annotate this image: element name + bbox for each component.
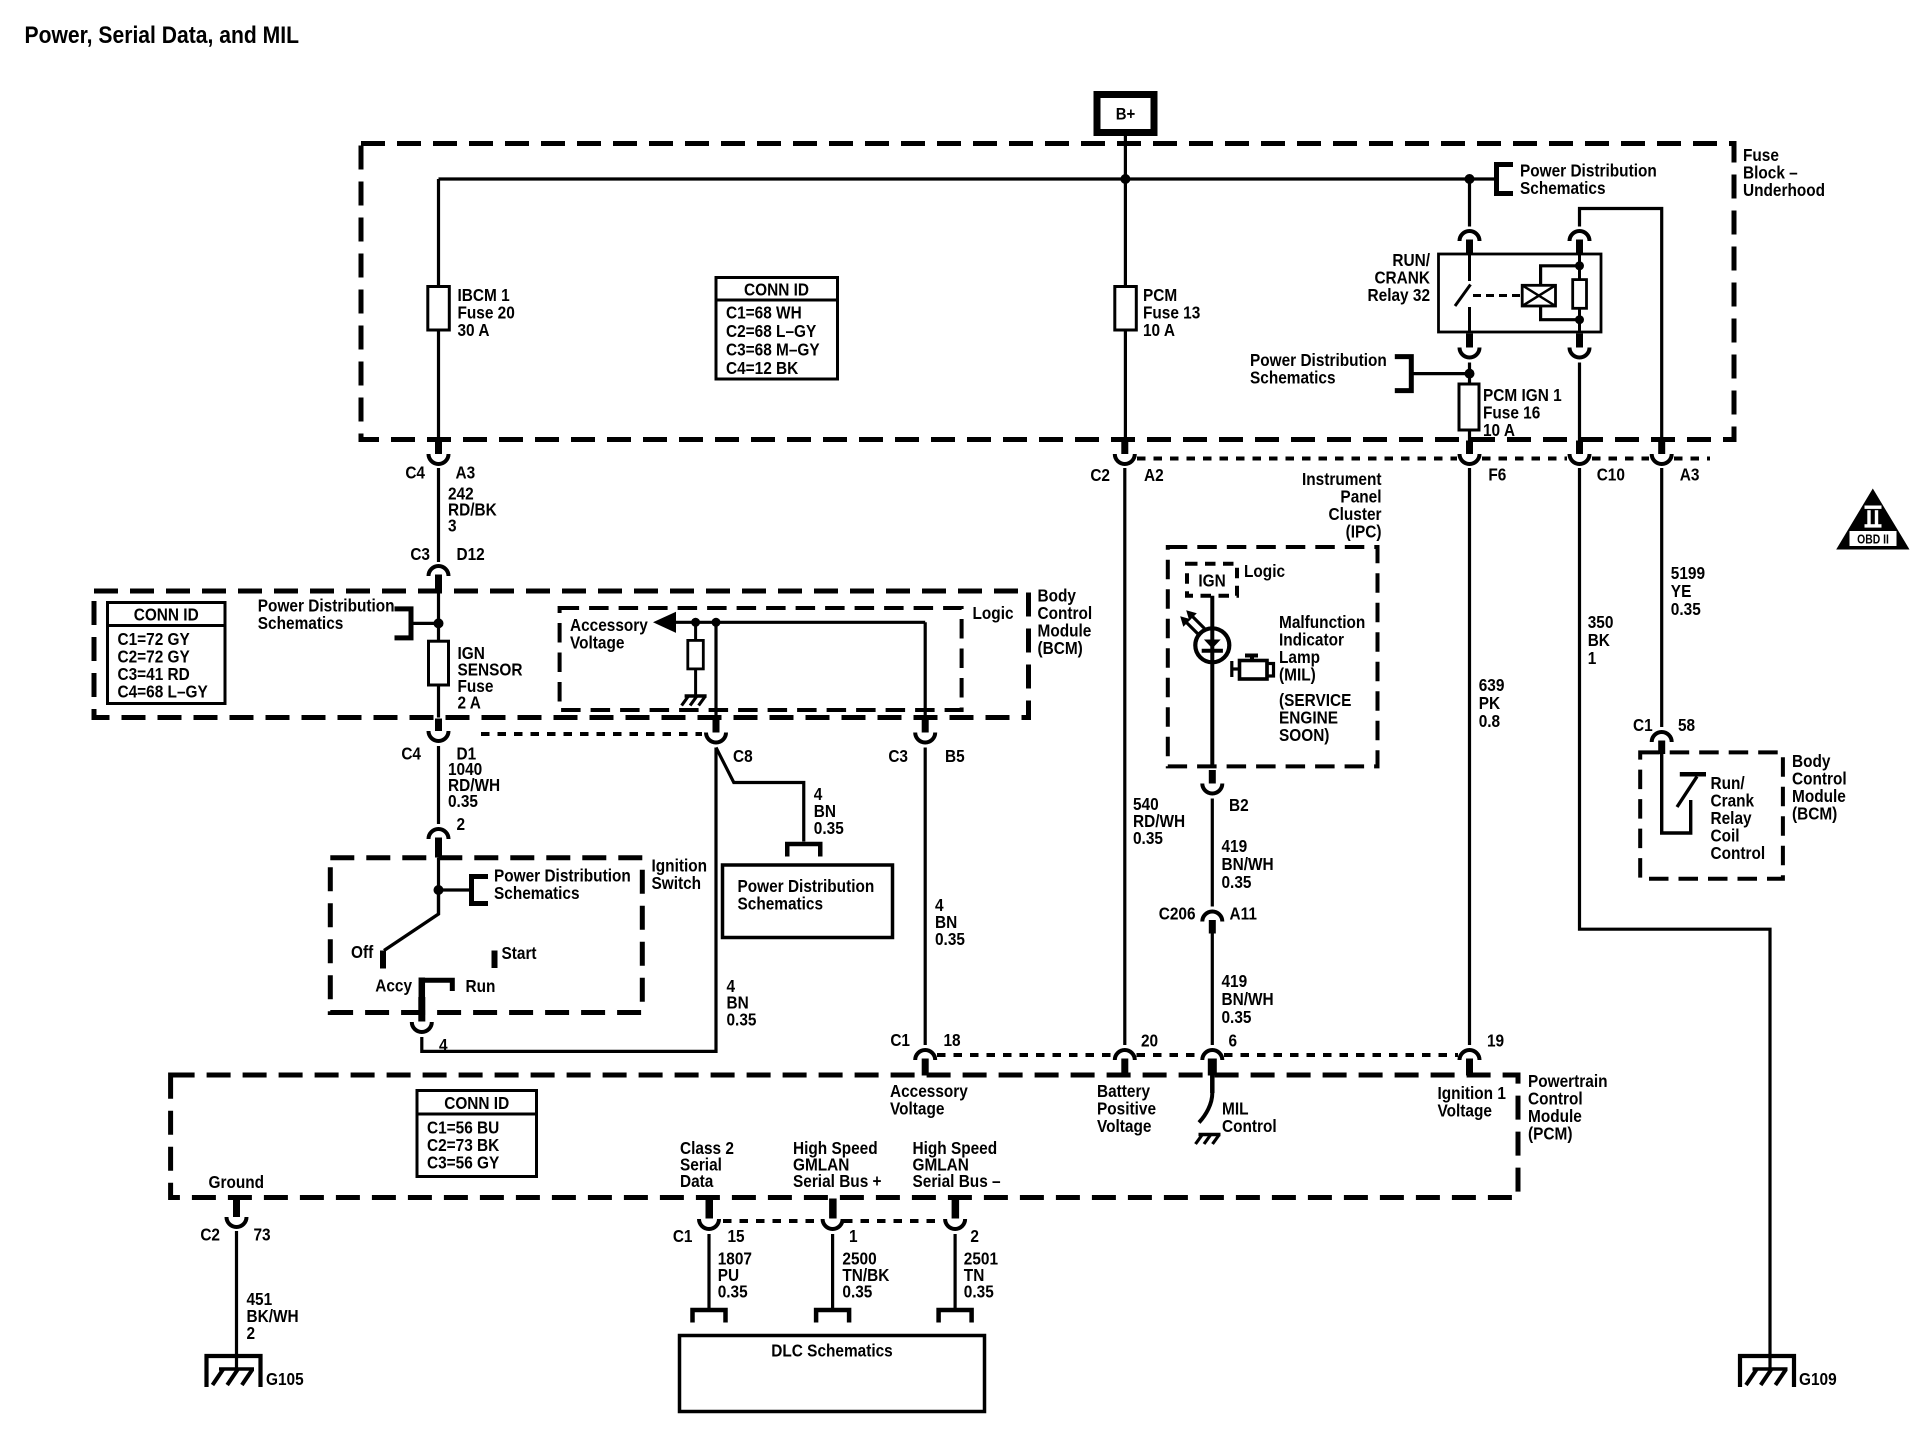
svg-text:Block –: Block – (1743, 164, 1798, 183)
wire C2/A2 down to pin 20 (1123, 468, 1126, 1045)
svg-text:10 A: 10 A (1143, 321, 1175, 340)
svg-text:2: 2 (247, 1324, 256, 1343)
svg-text:C2: C2 (1090, 466, 1110, 485)
svg-text:Ignition 1: Ignition 1 (1438, 1084, 1506, 1103)
svg-text:C1: C1 (890, 1031, 910, 1050)
wire D12 to IGN SENSOR fuse (437, 591, 440, 642)
svg-text:Malfunction: Malfunction (1279, 613, 1365, 632)
svg-text:Control: Control (1528, 1090, 1583, 1109)
wire into switch (437, 858, 440, 890)
svg-text:C2=73 BK: C2=73 BK (427, 1136, 499, 1155)
svg-text:PK: PK (1479, 694, 1500, 713)
relay RUN/CRANK Relay 32 (1439, 254, 1602, 332)
svg-text:Fuse: Fuse (1743, 146, 1779, 165)
svg-text:A3: A3 (456, 464, 476, 483)
svg-text:BK: BK (1588, 631, 1610, 650)
svg-text:C3=41 RD: C3=41 RD (118, 665, 190, 684)
svg-text:B2: B2 (1229, 796, 1249, 815)
svg-text:Voltage: Voltage (890, 1100, 944, 1119)
svg-text:C2: C2 (200, 1226, 220, 1245)
svg-text:58: 58 (1678, 716, 1695, 735)
svg-text:Control: Control (1792, 770, 1847, 789)
svg-text:Schematics: Schematics (1250, 369, 1336, 388)
svg-text:Ground: Ground (209, 1173, 265, 1192)
svg-text:C206: C206 (1159, 905, 1196, 924)
wire PCM fuse to C2/A2 (1124, 330, 1127, 442)
ground (BCM internal) (682, 696, 707, 706)
svg-text:C3: C3 (888, 747, 908, 766)
wire 350 BK 1 (C10 to G109) (1580, 468, 1771, 1369)
svg-text:73: 73 (254, 1226, 271, 1245)
box Power Distribution Schematics (723, 865, 893, 938)
svg-text:15: 15 (728, 1227, 745, 1246)
svg-text:C10: C10 (1597, 466, 1625, 485)
svg-text:Power, Serial Data, and MIL: Power, Serial Data, and MIL (25, 22, 300, 49)
wire coil bottom link (1541, 306, 1580, 320)
pcm connector row dotted line (937, 1053, 1113, 1057)
resistor BCM pull (694, 622, 697, 640)
svg-text:0.35: 0.35 (935, 930, 965, 949)
connector B2 (IPC output) (1202, 770, 1222, 794)
svg-text:C3=56 GY: C3=56 GY (427, 1154, 499, 1173)
connector C1/15 (class 2 serial) (706, 1199, 714, 1219)
svg-text:PCM IGN 1: PCM IGN 1 (1483, 386, 1562, 405)
wire relay coil feed elbow (1580, 209, 1662, 443)
harness stub to DLC (2) (939, 1310, 972, 1323)
connector C2/A2 (1115, 441, 1135, 465)
harness stub to DLC (15) (693, 1310, 726, 1323)
connector relay switch-in terminal (1460, 231, 1480, 254)
svg-text:0.35: 0.35 (842, 1282, 872, 1301)
svg-text:Power Distribution: Power Distribution (494, 867, 631, 886)
svg-text:10 A: 10 A (1483, 421, 1515, 440)
resistor relay suppression (1578, 266, 1581, 280)
contact Off (380, 951, 386, 969)
svg-text:C1=72 GY: C1=72 GY (118, 630, 190, 649)
bcm coil control driver (1662, 754, 1691, 833)
wire relay coil-out down to C10 (1578, 363, 1581, 443)
svg-text:3: 3 (448, 517, 457, 536)
svg-text:D12: D12 (457, 545, 485, 564)
connector 2 (ignition switch) (429, 829, 449, 858)
svg-text:0.35: 0.35 (814, 819, 844, 838)
svg-text:Run/: Run/ (1711, 774, 1746, 793)
svg-text:2: 2 (457, 815, 466, 834)
connector 19 (PCM ignition 1) (1460, 1050, 1480, 1076)
wire 419 BN/WH to pin 6 (1211, 934, 1214, 1046)
svg-text:C3: C3 (410, 545, 430, 564)
svg-text:C2=72 GY: C2=72 GY (118, 648, 190, 667)
arrow accessory voltage (653, 612, 676, 633)
node C8 tap (712, 618, 721, 627)
node ignition PDS tap (434, 885, 444, 895)
bcm run/crank relay coil control dashed box (1640, 752, 1783, 878)
connector 4 (ignition switch out) (418, 997, 425, 1022)
connector relay coil-in terminal (1570, 231, 1590, 254)
connector C4/D1 (BCM bottom) (429, 719, 449, 742)
node coil bottom (1575, 315, 1584, 324)
ignition switch dashed box (330, 858, 642, 1013)
svg-text:0.35: 0.35 (964, 1282, 994, 1301)
svg-text:Fuse 16: Fuse 16 (1483, 404, 1540, 423)
engine MIL icon (1232, 654, 1274, 680)
wire IGN SENSOR fuse to D1 (437, 685, 440, 718)
svg-text:Schematics: Schematics (738, 895, 824, 914)
svg-text:G109: G109 (1799, 1370, 1837, 1389)
svg-text:19: 19 (1487, 1032, 1504, 1051)
wire B5 branch down (924, 622, 927, 717)
svg-text:0.35: 0.35 (1222, 873, 1252, 892)
dlc connector row dotted line (723, 1219, 821, 1223)
svg-text:Schematics: Schematics (494, 884, 580, 903)
fuse PCM Fuse 13 10A (1115, 287, 1137, 331)
svg-text:MIL: MIL (1222, 1100, 1248, 1119)
conn id table (PCM) (417, 1091, 537, 1177)
svg-text:(PCM): (PCM) (1528, 1125, 1572, 1144)
svg-text:(MIL): (MIL) (1279, 666, 1316, 685)
svg-text:C8: C8 (733, 747, 753, 766)
svg-text:Power Distribution: Power Distribution (258, 597, 395, 616)
svg-text:C4=12 BK: C4=12 BK (726, 359, 798, 378)
wire 1807 PU 0.35 (707, 1234, 710, 1309)
box DLC Schematics (680, 1336, 985, 1412)
svg-text:Module: Module (1792, 787, 1846, 806)
ground G109 (1740, 1356, 1794, 1387)
svg-text:DLC Schematics: DLC Schematics (771, 1342, 892, 1361)
MIL indicator LED lamp (1195, 628, 1229, 662)
conn id table (BCM) (108, 603, 226, 704)
svg-text:C4: C4 (401, 745, 421, 764)
harness stub to DLC (1) (816, 1310, 849, 1323)
ground G105 (207, 1356, 261, 1387)
node bus/relay junction (1465, 174, 1475, 184)
ipc connector row dotted line (1137, 457, 1457, 461)
node coil top (1575, 261, 1584, 270)
svg-text:0.35: 0.35 (448, 792, 478, 811)
connector 20 (PCM battery positive) (1115, 1050, 1135, 1076)
svg-text:Relay 32: Relay 32 (1368, 286, 1430, 305)
svg-text:Control: Control (1038, 604, 1093, 623)
svg-text:IGN: IGN (1198, 572, 1225, 591)
wire bus to IBCM fuse (437, 179, 440, 288)
svg-text:Module: Module (1528, 1107, 1582, 1126)
svg-text:Cluster: Cluster (1328, 505, 1382, 524)
svg-text:2: 2 (970, 1227, 979, 1246)
svg-text:Off: Off (351, 943, 374, 962)
svg-text:A11: A11 (1230, 905, 1257, 924)
battery feed B+ (1097, 95, 1154, 133)
wire B+ down to bus (1124, 133, 1127, 181)
svg-text:2 A: 2 A (458, 694, 481, 713)
svg-text:IBCM 1: IBCM 1 (458, 286, 510, 305)
connector C4/A3 (fuse block to harness) (429, 441, 449, 465)
svg-text:Powertrain: Powertrain (1528, 1072, 1608, 1091)
contact Start (492, 951, 498, 969)
connector relay coil-out terminal (1570, 334, 1590, 358)
connector 1 (GMLAN bus +) (829, 1199, 837, 1219)
wire 4 BN 0.35 (B5 to PCM 18) (924, 748, 927, 1046)
svg-text:Coil: Coil (1711, 827, 1740, 846)
svg-text:Start: Start (502, 944, 538, 963)
wire 419 BN/WH to C206 (1211, 799, 1214, 907)
svg-text:Fuse 20: Fuse 20 (458, 304, 515, 323)
accessory voltage logic dashed box (560, 608, 962, 710)
ignition switch blade (384, 890, 439, 951)
svg-text:Fuse 13: Fuse 13 (1143, 304, 1200, 323)
svg-text:0.35: 0.35 (718, 1282, 748, 1301)
svg-text:Body: Body (1792, 752, 1831, 771)
node PDS tap (1465, 369, 1475, 379)
svg-text:Lamp: Lamp (1279, 648, 1320, 667)
svg-text:419: 419 (1222, 837, 1248, 856)
svg-text:C2=68 L–GY: C2=68 L–GY (726, 322, 816, 341)
svg-text:Instrument: Instrument (1302, 470, 1382, 489)
node resistor tap (691, 618, 700, 627)
svg-text:PCM: PCM (1143, 286, 1177, 305)
svg-text:B5: B5 (945, 747, 965, 766)
svg-text:Voltage: Voltage (1438, 1102, 1492, 1121)
wire 451 BK/WH 2 (235, 1231, 238, 1369)
off-page bracket Power Distribution Schematics (BCM fuse) (395, 609, 412, 638)
off-page bracket Power Distribution Schematics (ignition) (439, 888, 472, 891)
svg-text:1: 1 (1588, 649, 1597, 668)
connector C3/D12 (harness to BCM) (429, 566, 449, 590)
svg-text:BN/WH: BN/WH (1222, 990, 1274, 1009)
svg-text:350: 350 (1588, 613, 1614, 632)
svg-text:BN/WH: BN/WH (1222, 855, 1274, 874)
connector F6 (1460, 441, 1480, 465)
svg-text:CONN ID: CONN ID (444, 1094, 509, 1113)
wire IGN to MIL lamp (1210, 596, 1214, 767)
svg-text:SOON): SOON) (1279, 726, 1329, 745)
ipc logic dashed box (1168, 547, 1378, 766)
wire 2501 TN 0.35 (953, 1234, 956, 1309)
svg-text:Switch: Switch (652, 874, 702, 893)
svg-text:Data: Data (680, 1172, 714, 1191)
contact Run bridge (422, 980, 453, 991)
svg-text:Schematics: Schematics (1520, 179, 1606, 198)
relay coil (1522, 285, 1555, 306)
MIL control driver switch (1210, 1076, 1215, 1094)
wire ignition 4 to C8 (422, 748, 716, 1052)
svg-text:C1=56 BU: C1=56 BU (427, 1119, 499, 1138)
connector C1/18 (PCM accessory voltage) (915, 1050, 935, 1076)
connector C10 (1570, 441, 1590, 465)
wire IBCM fuse to C4 (437, 330, 440, 442)
bcm connector row dotted line (481, 732, 702, 736)
svg-text:CONN ID: CONN ID (744, 281, 809, 300)
wire 1040 RD/WH 0.35 (437, 746, 440, 824)
svg-text:Crank: Crank (1711, 792, 1755, 811)
connector relay switch-out terminal (1460, 334, 1480, 358)
fuse IBCM 1 Fuse 20 30A (428, 287, 450, 331)
svg-text:Power Distribution: Power Distribution (1250, 351, 1387, 370)
svg-text:C3=68 M–GY: C3=68 M–GY (726, 341, 820, 360)
svg-text:C1: C1 (673, 1227, 693, 1246)
svg-text:(IPC): (IPC) (1346, 523, 1382, 542)
svg-text:Indicator: Indicator (1279, 631, 1345, 650)
svg-text:Serial Bus +: Serial Bus + (793, 1172, 882, 1191)
svg-text:Control: Control (1711, 844, 1766, 863)
OBD II symbol (1836, 489, 1909, 550)
off-page bracket Power Distribution Schematics (mid) (1395, 357, 1412, 391)
wire 639 PK 0.8 (F6 to PCM 19) (1468, 468, 1471, 1045)
svg-text:C4=68 L–GY: C4=68 L–GY (118, 683, 208, 702)
svg-text:RUN/: RUN/ (1392, 251, 1430, 270)
node bus/B+ junction (1120, 174, 1130, 184)
svg-text:Module: Module (1038, 622, 1092, 641)
svg-text:Serial Bus –: Serial Bus – (913, 1172, 1001, 1191)
svg-text:B+: B+ (1116, 106, 1136, 124)
harness continuation stub (PDS) (787, 844, 820, 857)
fuse block underhood dashed box (361, 144, 1734, 440)
wire main B+ bus (439, 177, 1497, 180)
wire 5199 YE 0.35 (A3 to BCM 58) (1660, 468, 1663, 727)
svg-text:419: 419 (1222, 972, 1248, 991)
wire accessory voltage feed (674, 621, 925, 624)
connector C3/B5 (BCM bottom) (915, 720, 935, 743)
svg-text:639: 639 (1479, 676, 1505, 695)
svg-text:Ignition: Ignition (652, 857, 708, 876)
wire coil top link (1541, 266, 1580, 286)
svg-text:Accy: Accy (375, 977, 413, 996)
svg-text:Power Distribution: Power Distribution (738, 877, 875, 896)
svg-text:Voltage: Voltage (1097, 1117, 1151, 1136)
svg-text:CRANK: CRANK (1374, 269, 1430, 288)
relay actuation dashed link (1473, 294, 1521, 297)
connector C1/58 (BCM) (1652, 732, 1672, 754)
svg-text:Battery: Battery (1097, 1082, 1151, 1101)
connector C206/A11 inline (1202, 912, 1222, 934)
svg-text:0.8: 0.8 (1479, 712, 1500, 731)
svg-text:1: 1 (849, 1227, 858, 1246)
fuse PCM IGN 1 Fuse 16 10A (1459, 384, 1479, 430)
connector C2/73 (PCM ground) (227, 1198, 247, 1227)
svg-text:Accessory: Accessory (890, 1082, 969, 1101)
wire bus to PCM fuse 13 (1124, 179, 1127, 288)
relay switch contact (1468, 254, 1471, 281)
wire coil feed from A3 branch (1578, 254, 1581, 266)
lamp emission arrows (1180, 610, 1204, 634)
svg-text:0.35: 0.35 (1671, 600, 1701, 619)
svg-text:Run: Run (466, 977, 496, 996)
connector C8 (BCM bottom) (706, 720, 726, 743)
svg-text:(BCM): (BCM) (1792, 805, 1837, 824)
svg-text:Power Distribution: Power Distribution (1520, 162, 1657, 181)
svg-text:Positive: Positive (1097, 1100, 1156, 1119)
svg-text:A3: A3 (1680, 466, 1700, 485)
svg-text:Panel: Panel (1340, 488, 1381, 507)
svg-text:Voltage: Voltage (570, 634, 624, 653)
node PDS tap (BCM) (434, 618, 444, 628)
svg-text:YE: YE (1671, 582, 1692, 601)
svg-text:ENGINE: ENGINE (1279, 709, 1338, 728)
connector A3 (relay coil feed) (1652, 441, 1672, 465)
svg-text:Accessory: Accessory (570, 616, 649, 635)
svg-text:G105: G105 (266, 1370, 304, 1389)
ign dashed box (1187, 564, 1237, 596)
svg-text:6: 6 (1229, 1032, 1238, 1051)
conn id table (fuse block) (716, 278, 838, 380)
fuse IGN SENSOR Fuse 2A (429, 641, 449, 685)
wire relay out to PCM IGN1 fuse (1468, 363, 1471, 385)
wire 2500 TN/BK 0.35 (831, 1234, 834, 1309)
svg-text:C1=68 WH: C1=68 WH (726, 304, 802, 323)
contact Accy (419, 978, 426, 998)
wire 242 RD/BK 3 (437, 468, 440, 562)
ground (PCM internal MIL driver) (1196, 1135, 1221, 1145)
svg-text:(SERVICE: (SERVICE (1279, 691, 1351, 710)
svg-text:18: 18 (944, 1031, 961, 1050)
connector 2 (GMLAN bus -) (952, 1199, 960, 1219)
wire C8 to power distribution schematics (716, 748, 804, 842)
svg-text:Body: Body (1038, 587, 1077, 606)
off-page bracket Power Distribution Schematics (top) (1497, 165, 1514, 194)
body control module dashed box (94, 591, 1029, 718)
svg-text:5199: 5199 (1671, 564, 1705, 583)
svg-text:Logic: Logic (1244, 562, 1285, 581)
svg-text:0.35: 0.35 (1133, 829, 1163, 848)
svg-text:CONN ID: CONN ID (134, 606, 199, 625)
wire C8 branch down (714, 622, 717, 717)
wire bus to relay pin 1 (1468, 179, 1471, 227)
svg-text:Logic: Logic (973, 604, 1014, 623)
svg-text:Schematics: Schematics (258, 614, 344, 633)
svg-text:F6: F6 (1488, 466, 1506, 485)
svg-text:Relay: Relay (1711, 809, 1753, 828)
svg-text:30 A: 30 A (458, 321, 490, 340)
svg-text:0.35: 0.35 (1222, 1008, 1252, 1027)
svg-text:A2: A2 (1144, 466, 1164, 485)
wire PCM IGN1 fuse to F6 (1468, 430, 1471, 442)
svg-text:(BCM): (BCM) (1038, 639, 1083, 658)
connector 6 (PCM MIL control) (1202, 1050, 1222, 1076)
svg-text:C1: C1 (1633, 716, 1653, 735)
svg-text:Control: Control (1222, 1117, 1277, 1136)
svg-text:0.35: 0.35 (727, 1011, 757, 1030)
powertrain control module dashed box (171, 1075, 1518, 1198)
svg-text:OBD II: OBD II (1857, 532, 1889, 546)
svg-text:Underhood: Underhood (1743, 181, 1825, 200)
svg-text:20: 20 (1141, 1032, 1158, 1051)
svg-text:C4: C4 (405, 464, 425, 483)
